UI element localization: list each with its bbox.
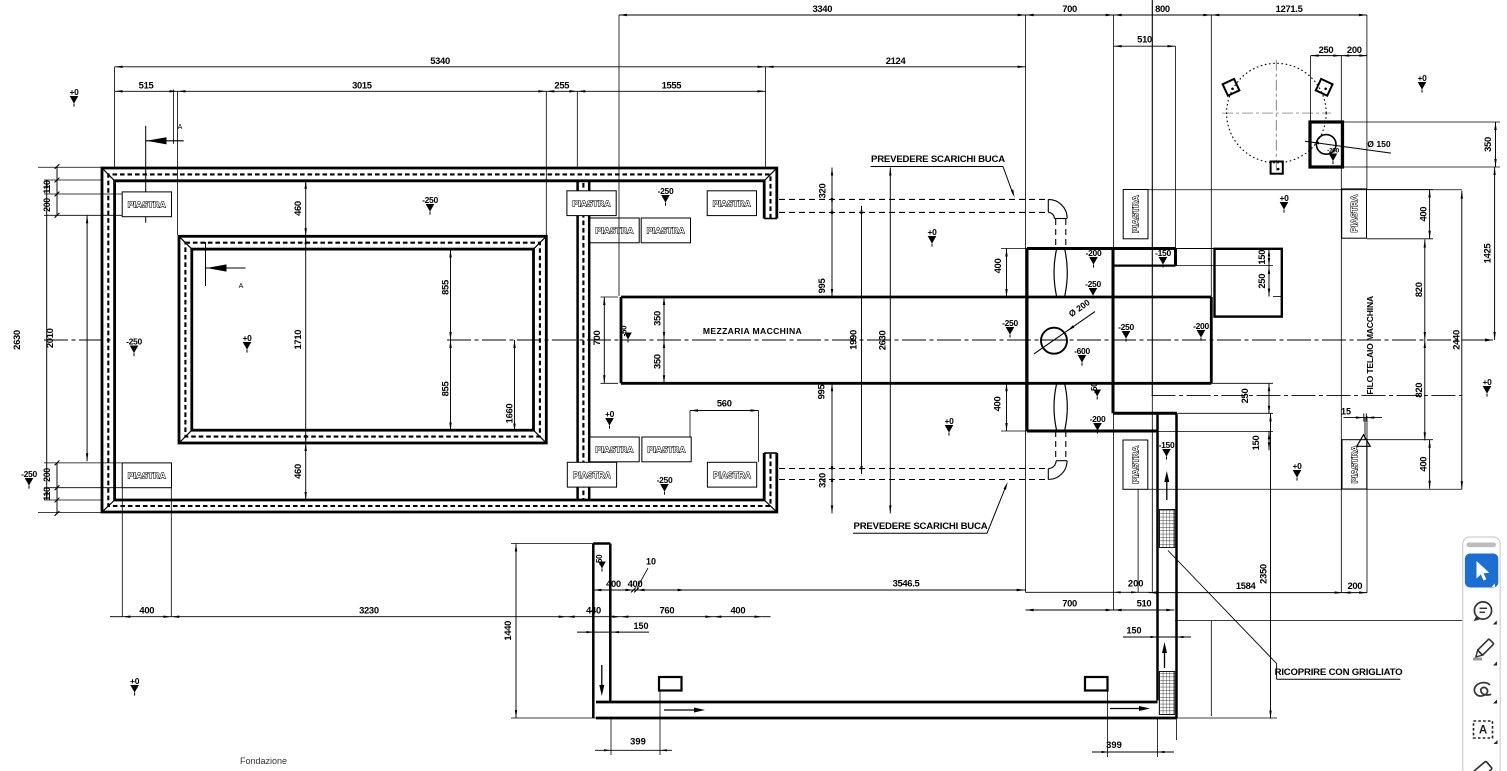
svg-text:PIASTRA: PIASTRA <box>1131 195 1141 233</box>
svg-text:150: 150 <box>1256 250 1267 265</box>
svg-text:399: 399 <box>1106 739 1122 750</box>
svg-text:350: 350 <box>1482 137 1493 152</box>
svg-text:RICOPRIRE CON GRIGLIATO: RICOPRIRE CON GRIGLIATO <box>1275 667 1404 678</box>
svg-text:PIASTRA: PIASTRA <box>128 200 166 210</box>
svg-text:+0: +0 <box>130 676 140 686</box>
svg-text:855: 855 <box>440 382 451 397</box>
svg-text:PIASTRA: PIASTRA <box>572 199 610 209</box>
svg-text:150: 150 <box>1126 626 1141 636</box>
svg-text:PIASTRA: PIASTRA <box>128 471 166 481</box>
svg-text:PIASTRA: PIASTRA <box>1130 446 1140 484</box>
svg-text:700: 700 <box>591 331 602 346</box>
svg-text:150: 150 <box>633 621 648 631</box>
svg-text:1710: 1710 <box>292 330 303 350</box>
svg-text:-250: -250 <box>1002 318 1018 328</box>
svg-text:PIASTRA: PIASTRA <box>1349 445 1359 483</box>
svg-text:3546.5: 3546.5 <box>893 578 920 589</box>
svg-text:400: 400 <box>1418 457 1429 472</box>
svg-text:2630: 2630 <box>11 330 22 350</box>
svg-text:2350: 2350 <box>1258 564 1269 584</box>
svg-text:440: 440 <box>586 605 601 616</box>
svg-text:400: 400 <box>992 259 1003 274</box>
svg-text:+0: +0 <box>1417 73 1427 83</box>
svg-text:399: 399 <box>630 736 646 747</box>
svg-text:250: 250 <box>1256 274 1267 289</box>
svg-text:PIASTRA: PIASTRA <box>595 226 633 236</box>
svg-text:320: 320 <box>817 473 828 488</box>
svg-text:820: 820 <box>1413 282 1424 297</box>
svg-text:700: 700 <box>1062 3 1077 14</box>
svg-text:PIASTRA: PIASTRA <box>573 470 611 480</box>
svg-text:1271.5: 1271.5 <box>1276 3 1303 14</box>
svg-text:MEZZARIA MACCHINA: MEZZARIA MACCHINA <box>703 326 802 336</box>
svg-text:Fondazione: Fondazione <box>240 756 287 766</box>
svg-text:200: 200 <box>1347 580 1362 591</box>
svg-text:255: 255 <box>554 79 569 90</box>
svg-text:PIASTRA: PIASTRA <box>595 445 633 455</box>
svg-text:1584: 1584 <box>1236 580 1257 591</box>
svg-text:PIASTRA: PIASTRA <box>647 226 685 236</box>
svg-text:510: 510 <box>1137 598 1152 609</box>
svg-text:-250: -250 <box>126 337 142 347</box>
svg-text:15: 15 <box>1341 407 1351 417</box>
svg-text:3230: 3230 <box>359 605 379 616</box>
svg-text:A: A <box>239 283 244 290</box>
svg-text:-200: -200 <box>1086 248 1102 258</box>
svg-text:400: 400 <box>139 605 154 616</box>
svg-text:400: 400 <box>731 605 746 616</box>
svg-text:PREVEDERE SCARICHI BUCA: PREVEDERE SCARICHI BUCA <box>854 521 988 532</box>
svg-text:A: A <box>178 124 183 131</box>
svg-text:350: 350 <box>652 354 663 369</box>
svg-text:200: 200 <box>1128 578 1144 589</box>
svg-text:110: 110 <box>42 487 52 501</box>
svg-text:+0: +0 <box>1292 461 1302 471</box>
svg-text:-150: -150 <box>1155 248 1171 258</box>
svg-text:200: 200 <box>42 468 52 482</box>
svg-text:-600: -600 <box>1074 346 1090 356</box>
svg-text:-200: -200 <box>1327 148 1339 155</box>
svg-text:700: 700 <box>1062 598 1077 609</box>
svg-text:Ø 150: Ø 150 <box>1367 139 1391 149</box>
svg-text:560: 560 <box>717 398 732 409</box>
svg-text:2010: 2010 <box>44 328 55 348</box>
svg-text:200: 200 <box>42 198 52 212</box>
svg-text:110: 110 <box>42 180 52 194</box>
svg-text:350: 350 <box>652 311 663 326</box>
svg-text:+0: +0 <box>944 416 954 426</box>
svg-text:-250: -250 <box>422 195 438 205</box>
svg-text:515: 515 <box>139 79 154 90</box>
svg-text:510: 510 <box>1137 34 1152 45</box>
svg-text:460: 460 <box>292 201 303 216</box>
svg-text:+0: +0 <box>69 87 79 97</box>
svg-text:-250: -250 <box>21 469 37 479</box>
svg-text:400: 400 <box>606 578 621 589</box>
svg-text:-200: -200 <box>1193 321 1209 331</box>
svg-text:PIASTRA: PIASTRA <box>713 470 751 480</box>
svg-text:+0: +0 <box>242 333 252 343</box>
svg-text:400: 400 <box>992 397 1003 412</box>
svg-text:995: 995 <box>816 385 827 400</box>
svg-text:800: 800 <box>1155 3 1170 14</box>
svg-text:3015: 3015 <box>352 79 372 90</box>
svg-text:-250: -250 <box>1118 322 1134 332</box>
svg-text:250: 250 <box>1239 389 1250 404</box>
svg-text:+0: +0 <box>605 409 615 419</box>
svg-text:-200: -200 <box>1090 414 1106 424</box>
svg-text:995: 995 <box>816 279 827 294</box>
svg-text:2440: 2440 <box>1451 330 1462 350</box>
svg-text:-250: -250 <box>658 186 674 196</box>
svg-text:760: 760 <box>660 605 675 616</box>
svg-text:+0: +0 <box>927 227 937 237</box>
svg-text:+0: +0 <box>1279 193 1289 203</box>
svg-text:3340: 3340 <box>812 3 832 14</box>
svg-text:460: 460 <box>292 464 303 479</box>
svg-text:250: 250 <box>1319 44 1334 55</box>
svg-text:400: 400 <box>1418 207 1429 222</box>
svg-text:400: 400 <box>628 578 643 589</box>
svg-text:1990: 1990 <box>848 330 859 350</box>
svg-text:320: 320 <box>817 184 828 199</box>
svg-text:200: 200 <box>1347 44 1362 55</box>
svg-text:150: 150 <box>1250 436 1261 451</box>
svg-text:1555: 1555 <box>662 79 682 90</box>
svg-text:855: 855 <box>440 280 451 295</box>
svg-text:-250: -250 <box>657 475 673 485</box>
svg-text:-250: -250 <box>1085 279 1101 289</box>
svg-text:PIASTRA: PIASTRA <box>1349 194 1359 232</box>
svg-text:5340: 5340 <box>430 55 450 66</box>
svg-text:A: A <box>1479 725 1487 737</box>
svg-text:1425: 1425 <box>1482 244 1493 264</box>
svg-text:+0: +0 <box>1482 377 1492 387</box>
svg-text:2124: 2124 <box>886 55 907 66</box>
svg-text:PIASTRA: PIASTRA <box>647 445 685 455</box>
svg-text:-150: -150 <box>1159 440 1175 450</box>
svg-text:FILO TELAIO MACCHINA: FILO TELAIO MACCHINA <box>1365 296 1375 395</box>
svg-text:PIASTRA: PIASTRA <box>713 199 751 209</box>
svg-text:1440: 1440 <box>502 621 513 641</box>
svg-text:10: 10 <box>646 557 656 567</box>
svg-text:2630: 2630 <box>877 331 888 351</box>
svg-text:PREVEDERE SCARICHI BUCA: PREVEDERE SCARICHI BUCA <box>871 154 1005 165</box>
svg-text:1660: 1660 <box>504 404 515 424</box>
svg-text:820: 820 <box>1413 383 1424 398</box>
